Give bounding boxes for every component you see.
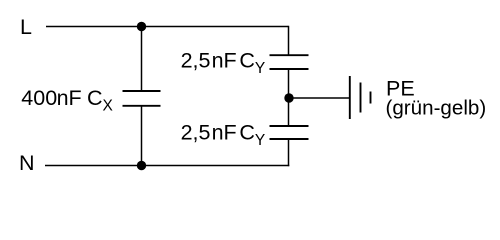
ground PE symbol bbox=[350, 76, 371, 119]
svg-text:(grün-gelb): (grün-gelb) bbox=[386, 97, 487, 120]
svg-text:N: N bbox=[19, 151, 35, 175]
svg-text:400nFCX: 400nFCX bbox=[21, 86, 113, 115]
capacitor CY top bbox=[270, 55, 309, 69]
capacitor CY bottom bbox=[270, 126, 309, 139]
junction dot node PE bbox=[284, 93, 293, 102]
wire CX branch lower bbox=[141, 106, 143, 166]
wire N line bbox=[45, 165, 289, 167]
wire CX branch upper bbox=[141, 27, 143, 92]
wire right branch bottom bbox=[288, 139, 290, 166]
wire right branch top bbox=[288, 26, 290, 55]
capacitor CX bbox=[123, 91, 161, 106]
wire right branch middle bbox=[288, 69, 290, 126]
wire L line bbox=[46, 26, 289, 28]
junction dot node N/CX bbox=[137, 161, 146, 170]
svg-text:2,5nFCY: 2,5nFCY bbox=[181, 49, 266, 78]
junction dot node L/CX bbox=[137, 22, 146, 31]
svg-text:L: L bbox=[20, 15, 32, 39]
svg-text:2,5nFCY: 2,5nFCY bbox=[181, 121, 266, 150]
wire PE lead bbox=[289, 97, 350, 99]
